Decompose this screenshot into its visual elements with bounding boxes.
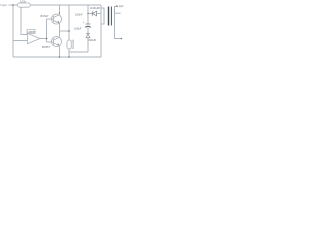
node output junction bbox=[46, 38, 48, 40]
svg-text:100nF: 100nF bbox=[75, 13, 83, 17]
transistor Q1 collector joint bbox=[59, 12, 60, 13]
wire vertical x101 bbox=[100, 5, 102, 57]
resistor R1 bbox=[18, 3, 31, 7]
transformer T1 core bar 1 bbox=[108, 7, 109, 26]
wire Q1 collector bbox=[59, 5, 61, 15]
wire vertical x88 top bbox=[87, 5, 89, 24]
node R2 rail dot bbox=[68, 56, 70, 58]
svg-text:To spkr: To spkr bbox=[116, 5, 124, 8]
wire Q1 emitter to Q2 collector bbox=[59, 23, 61, 36]
wire below D2 bbox=[87, 38, 89, 53]
transformer T1 core bar 2 bbox=[111, 7, 112, 26]
wire op-amp inverting input bbox=[13, 40, 28, 42]
svg-text:600Ω: 600Ω bbox=[115, 13, 121, 15]
svg-text:BC557: BC557 bbox=[42, 45, 50, 49]
transformer T1 primary winding bbox=[103, 8, 105, 25]
wire secondary bottom bbox=[115, 24, 122, 39]
svg-text:BC547: BC547 bbox=[41, 14, 49, 18]
wire secondary top bbox=[115, 7, 119, 9]
wire diode branch right bbox=[97, 13, 102, 15]
wire bottom rail bbox=[13, 56, 101, 58]
diode D2 bbox=[86, 34, 90, 38]
wire vertical left bus bbox=[12, 5, 14, 57]
wire R2 bottom bbox=[68, 49, 70, 57]
wire input bbox=[9, 4, 18, 6]
wire Q2 base bbox=[47, 41, 54, 43]
svg-text:1N4148: 1N4148 bbox=[90, 6, 100, 10]
op-amp U1 bbox=[28, 33, 41, 43]
node diode branch junction bbox=[87, 13, 88, 14]
svg-text:+: + bbox=[83, 20, 85, 24]
node speaker terminal dot bbox=[121, 38, 123, 40]
node input junction bbox=[12, 4, 14, 6]
wire feedback bottom bbox=[69, 51, 88, 53]
node Q2 emitter rail dot bbox=[59, 56, 61, 58]
wire Q1 base bbox=[47, 18, 54, 20]
op-amp U1 label box bbox=[27, 30, 35, 34]
wire emitter junction to R2 bus bbox=[60, 30, 70, 32]
wire primary bottom tap bbox=[101, 23, 104, 25]
speaker LS1 bbox=[67, 40, 73, 49]
svg-text:100k: 100k bbox=[20, 0, 27, 4]
diode D1 bbox=[92, 11, 96, 16]
wire C1 to D2 bbox=[87, 28, 89, 34]
wire top rail bbox=[30, 4, 101, 6]
svg-text:Input: Input bbox=[0, 3, 7, 7]
transistor Q1 bbox=[52, 14, 62, 24]
wire Q2 emitter bbox=[59, 46, 61, 57]
transistor Q2 bbox=[52, 37, 62, 47]
svg-text:1N4148: 1N4148 bbox=[88, 39, 97, 42]
wire driver bus vertical bbox=[46, 19, 48, 42]
capacitor C1 bbox=[85, 24, 90, 27]
node emitter junction dot bbox=[68, 30, 70, 32]
wire op-amp output bbox=[40, 38, 47, 40]
transistor Q2 emitter arrow bbox=[57, 44, 59, 47]
wire vertical x69 bbox=[68, 5, 70, 40]
wire pot wiper drop bbox=[21, 7, 28, 34]
svg-text:100µF: 100µF bbox=[74, 26, 82, 30]
transistor Q1 emitter arrow bbox=[57, 21, 59, 24]
wire diode branch left bbox=[88, 13, 92, 15]
transformer T1 secondary winding bbox=[114, 8, 116, 25]
wire primary top tap bbox=[101, 7, 104, 9]
